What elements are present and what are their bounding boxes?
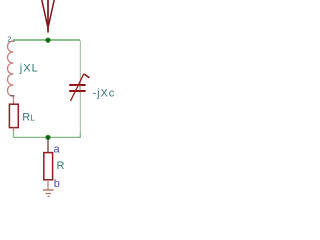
capacitor plate 1 [69,84,85,86]
capacitor plate 2 [69,90,85,92]
coil top tick [11,40,15,42]
lead R to ground [47,180,49,190]
lead coil to RL [13,97,15,105]
svg-text:RL: RL [22,111,35,123]
capacitor arrowhead [84,74,89,78]
svg-text:-jXc: -jXc [93,87,116,99]
resistor R [44,153,53,180]
antenna [42,0,54,31]
svg-text:R: R [57,160,65,172]
inductor jXL coil [8,41,14,96]
capacitor arrow [71,74,84,101]
svg-text:b: b [54,178,60,190]
svg-text:jXL: jXL [19,62,39,74]
lead RL bottom [13,128,15,131]
wire bottom [13,136,48,138]
capacitor lead between plates [79,84,81,93]
wire top [13,39,80,41]
wire left lower (RL to bottom wire) [13,131,15,138]
junction node 2 (antenna) [45,38,50,43]
wire right lower [79,92,81,135]
junction node a [45,135,50,140]
coil bottom tick [10,95,14,97]
svg-text:a: a [54,144,61,156]
resistor RL [9,104,18,127]
wire right upper [79,41,81,85]
ground [43,190,54,197]
lead node a to R [47,140,49,153]
